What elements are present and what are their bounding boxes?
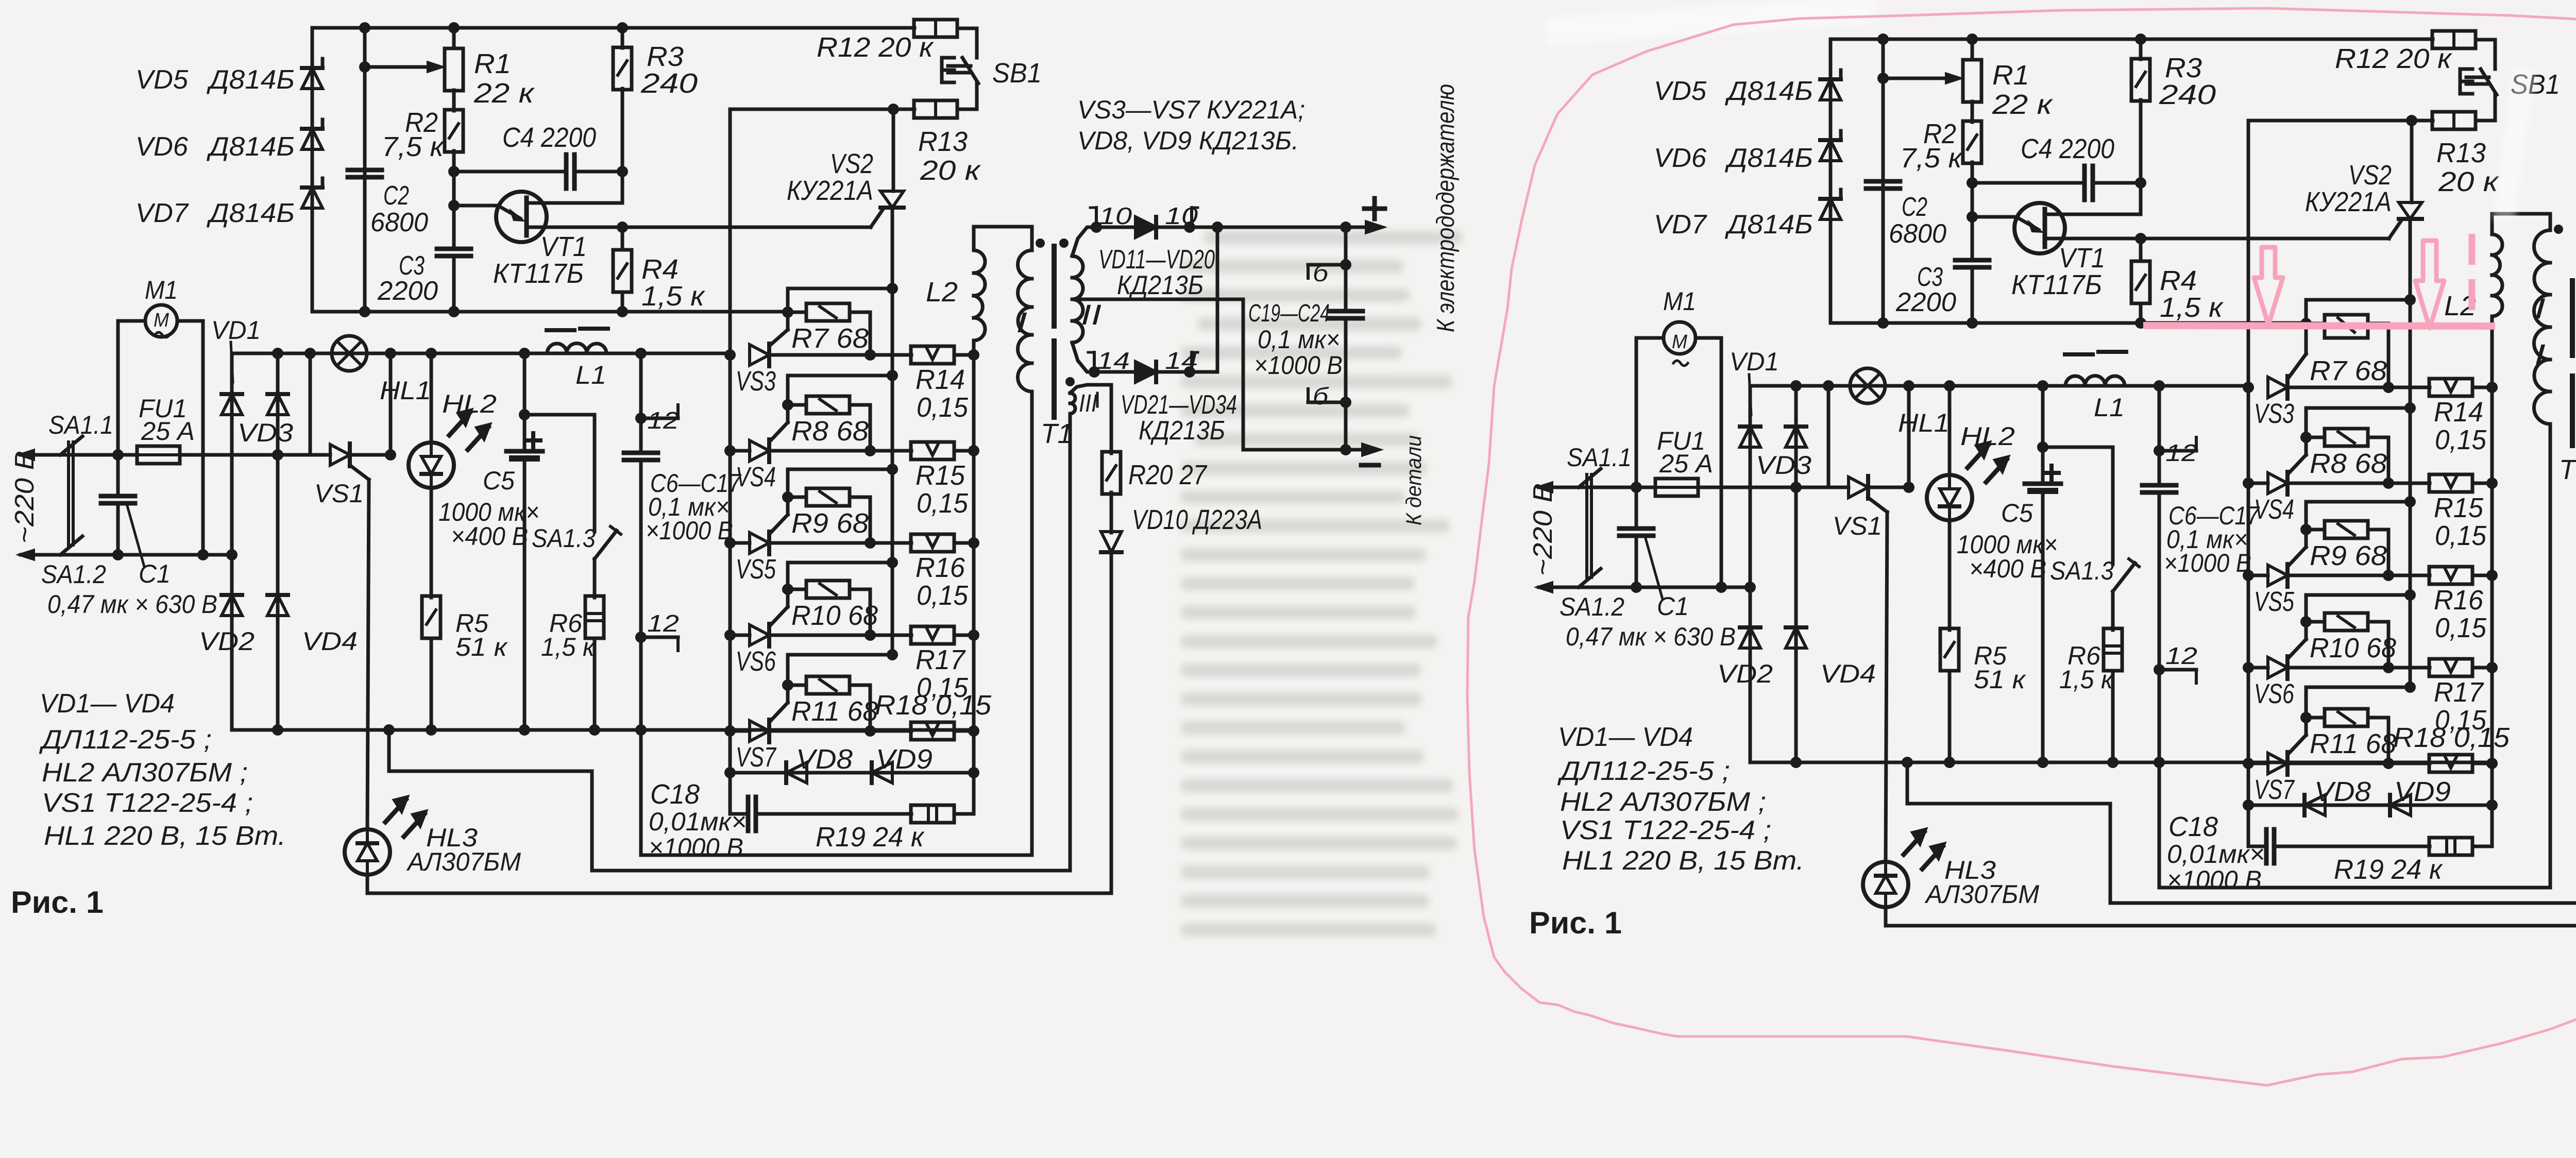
wire VD10 down to return [1110,552,1113,893]
resistor R12 [914,20,957,37]
junction VS3 anode rail (right copy) [2243,382,2254,393]
svg-text:VS7: VS7 [2254,774,2295,805]
junction R9 left lead (right copy) [2300,524,2312,535]
wire return line A (right copy) [2159,886,2550,890]
thyristor VS5 [750,533,769,553]
inductor L2 [972,227,976,250]
svg-text:2200: 2200 [1895,287,1956,317]
junction main bus VD3 [272,348,283,359]
wire VS1 gate (right copy) [1868,498,1887,512]
svg-text:0,15: 0,15 [2435,612,2487,643]
wire zener rail left side [311,28,314,312]
svg-text:R10 68: R10 68 [2310,633,2396,663]
wire VD2 to return bus [230,616,234,730]
wire VD4 to return bus [276,616,280,730]
svg-text:VS2: VS2 [2348,160,2392,191]
wire VS4 cathode (right copy) [2287,482,2430,485]
svg-text:0,01мк×: 0,01мк× [649,807,747,836]
junction VS6 gate-res branch (right copy) [2404,589,2416,601]
resistor R12 (right copy) [2432,31,2476,48]
wire SA1.3 to R6 (right copy) [2111,591,2115,630]
wire between R1 and R2 (right copy) [1971,101,1974,122]
wire C4 link [454,170,566,174]
svg-text:Рис. 1: Рис. 1 [1529,906,1622,940]
switch SA1.1 input arrow [21,453,60,457]
transformer core (right copy) [2570,281,2575,355]
thyristor VS4 (right copy) [2268,473,2287,493]
svg-text:10: 10 [1165,202,1198,229]
svg-text:SA1.1: SA1.1 [1567,443,1632,472]
junction VS3 gate-res branch (right copy) [2404,294,2416,305]
svg-text:VD7: VD7 [1654,210,1707,240]
junction R14 right [968,349,979,361]
junction R10 left lead (right copy) [2300,616,2312,627]
resistor R9 [806,488,850,506]
wire R9 right lead (right copy) [2368,528,2388,532]
junction R10 left lead [782,584,793,595]
LED HL2 (right copy) [1948,386,1952,475]
svg-text:0,01мк×: 0,01мк× [2167,840,2265,868]
wire return line C (right copy) [1886,924,2576,928]
junction R8 left lead (right copy) [2300,432,2312,443]
thyristor VS6 (right copy) [2268,657,2287,678]
junction C2 rail top (right copy) [1877,33,1889,45]
diode VD8 [786,762,807,783]
svg-text:SA1.3: SA1.3 [2050,556,2114,585]
junction emitter node (right copy) [1967,211,1978,223]
wire R5 to return bus [430,638,433,730]
wire VS2 gate diagonal (right copy) [2389,220,2401,239]
resistor R20 [1102,452,1121,494]
svg-text:C18: C18 [2168,811,2218,842]
wire R3 rail (right copy) [2139,39,2143,59]
svg-text:0,15: 0,15 [2435,424,2487,455]
svg-text:VS7: VS7 [736,742,776,773]
capacitor C6-C17 [624,451,658,455]
junction R8 to cathode (right copy) [2383,478,2394,489]
svg-text:R15: R15 [2434,492,2484,523]
capacitor C5 rail [523,353,527,451]
wire VS1 riser [309,353,312,455]
resistor R1 (potentiometer) [445,48,463,91]
wire R15 to L2 rail [954,449,974,453]
svg-text:М: М [154,310,169,331]
svg-text:240: 240 [640,68,698,99]
switch mechanical link [67,442,70,545]
junction bus C6 rail (right copy) [2154,380,2165,391]
wire SA1.2 lower bus (right copy) [1579,586,1750,589]
label VD1 leader [231,342,233,382]
junction VS7 gate-res branch (right copy) [2404,682,2416,693]
junction output plus node [1212,222,1223,233]
resistor R16 (right copy) [2429,567,2472,584]
lamp HL1 (right copy) [1850,368,1885,403]
wire C4 link (right copy) [1972,181,2084,185]
svg-text:VD6: VD6 [1654,143,1706,173]
resistor R17 (right copy) [2429,659,2472,676]
wire VS6 cathode [769,634,911,637]
wire bridge rail VD3 VD4 (right copy) [1794,386,1798,649]
switch SA1.1 blade [60,436,82,455]
capacitor C1 (right copy) [1635,487,1638,529]
faint printed text column (left page) [1181,231,1463,936]
resistor R3 (right copy) [2131,59,2150,101]
wire VS2 anode lead (right copy) [2410,121,2414,202]
svg-text:VS4: VS4 [736,462,776,492]
resistor R8 (right copy) [2325,429,2368,446]
wire R14 to L2 rail (right copy) [2472,386,2492,389]
capacitor C3 (right copy) [1955,258,1989,263]
junction VD8 row left [724,767,736,778]
svg-text:T1: T1 [1041,418,1073,449]
wire to SA1.3 (right copy) [2043,446,2113,449]
junction R9 to cathode (right copy) [2383,570,2394,581]
svg-text:×1000 В: ×1000 В [1254,351,1343,380]
svg-text:T1: T1 [2559,454,2576,485]
junction 10 left [1091,222,1102,233]
zener diode VD6 (right copy) [1820,140,1841,161]
svg-text:III: III [1079,390,1097,417]
svg-text:I: I [2534,292,2546,325]
svg-text:КТ117Б: КТ117Б [493,258,584,289]
diode VD21-VD34 [1136,362,1156,382]
switch SA1.3 (right copy) [2113,563,2135,591]
thyristor VS3 [750,345,769,365]
terminal b lower [1308,401,1346,404]
junction VD4 return [272,724,283,736]
wire gate loop R8 [788,374,892,378]
wire R6 to return bus [593,638,597,730]
polarity dot primary (right copy) [2554,225,2563,234]
svg-text:Рис. 1: Рис. 1 [11,885,104,919]
svg-text:7,5 к: 7,5 к [1900,143,1963,174]
motor M1 (right copy) [1664,322,1696,354]
inductor L1 [524,352,547,355]
svg-text:2200: 2200 [377,276,438,306]
diode VD3 (right copy) [1786,427,1806,447]
inductor L2 (right copy) [2490,214,2494,234]
switch SA1.2 blade (right copy) [1579,569,1601,587]
junction bottom C3 (right copy) [1967,317,1978,329]
junction M1 - SA1.2 bus (right copy) [1716,582,1727,593]
wire VS3 cathode [769,353,911,357]
wire M1 right lead [177,319,203,323]
svg-text:SA1.2: SA1.2 [41,560,106,589]
wire R7 right lead [850,311,870,314]
junction bus HL2 [426,348,437,359]
svg-text:HL1: HL1 [380,376,431,405]
wire R13 left to rail (right copy) [2248,119,2433,123]
diode VD9 [872,762,892,783]
resistor R19 [911,805,954,823]
svg-text:20 к: 20 к [920,155,981,186]
junction R18 right [968,725,979,737]
label C1 leader line (right copy) [1646,538,1663,599]
wire VS2 cathode rail [891,208,894,655]
capacitor C2 [348,168,382,173]
svg-text:SA1.3: SA1.3 [532,524,596,553]
wire gate loop R9 (right copy) [2306,500,2410,504]
thyristor VS7 [750,721,769,741]
wire R17 to L2 rail (right copy) [2472,666,2492,670]
svg-text:VD9: VD9 [2394,776,2451,807]
switch SA1.3 [595,531,617,559]
wire plus output [1217,226,1371,229]
junction VD9 right [968,767,979,778]
wire bridge rail VD1 VD2 [230,353,234,616]
wire R19 to rail [954,812,974,816]
wire main bus (right copy) [1750,384,2248,388]
diode VD4 [267,595,288,616]
wire R6 to return bus (right copy) [2111,671,2115,762]
junction bus C5 [519,348,530,359]
wire VS5 anode (right copy) [2248,574,2268,577]
junction bottom R4 (right copy) [2135,317,2146,329]
wire R18 to L2 rail (right copy) [2472,762,2492,765]
capacitor C2 (right copy) [1866,179,1900,184]
junction VD8 row left (right copy) [2243,799,2254,811]
svg-text:АЛ307БМ: АЛ307БМ [406,847,521,876]
zener diode VD7 (right copy) [1820,199,1841,219]
junction bottom R4 [617,306,628,317]
zener diode VD5 [302,68,323,89]
wire R8 right lead (right copy) [2368,436,2388,439]
inductor L1 core dashes [547,328,574,332]
wire R2 bottom to C3 [452,151,456,249]
svg-text:М1: М1 [1663,287,1696,316]
resistor R15 [911,442,954,459]
junction VS7 gate-res branch [887,649,898,660]
junction main bus VS1 riser (right copy) [1823,380,1834,391]
wire M1 left lead [118,319,145,323]
wire gate loop R11 [788,653,892,657]
terminal 12 lower (right copy) [2154,664,2165,675]
svg-text:VS1 Т122-25-4 ;: VS1 Т122-25-4 ; [1560,815,1771,845]
wire II bottom lead to tap 14 [1072,343,1094,372]
svg-text:VS5: VS5 [736,554,776,585]
wire 14-wire [1094,370,1134,374]
svg-text:R3: R3 [2165,53,2202,83]
svg-text:К детали: К детали [1401,435,1426,525]
wire C18 R19 row (right copy) [2247,805,2250,846]
junction bus C5 (right copy) [2037,380,2048,391]
diode VD4 (right copy) [1786,627,1806,648]
label C1 leader line [127,506,144,567]
label minus sign [1361,463,1379,468]
capacitor C4 [564,155,569,189]
wire 10-wire right [1156,226,1217,229]
svg-text:К электрододержателю: К электрододержателю [1432,84,1460,332]
junction C6 return bus (right copy) [2154,757,2165,768]
capacitor C5 rail (right copy) [2041,386,2045,484]
wire R1 wiper arrow (right copy) [1883,77,1954,80]
wire T1 primary bottom lead (right copy) [2549,424,2552,888]
svg-text:R8 68: R8 68 [791,416,869,447]
wire gate loop R11 (right copy) [2306,686,2410,689]
junction R9 left lead [782,491,793,503]
svg-text:R3: R3 [647,41,684,72]
capacitor C5 [506,449,543,454]
pink dashed line near L2 [2469,234,2476,315]
wire VD4 to return bus (right copy) [1794,649,1798,762]
junction R14 right (right copy) [2486,382,2498,393]
resistor R19 (right copy) [2429,838,2472,855]
junction bottom C2 (right copy) [1877,317,1889,329]
lamp HL1 [332,336,367,371]
svg-text:М: М [1672,331,1687,353]
wire R1 R2 rail (right copy) [1971,39,1974,60]
wire oscillator top bus [312,26,914,30]
polarity dot II [1059,239,1069,248]
wire gate loop R7 [788,287,892,291]
zener diode VD7 [302,188,323,208]
junction C6 return bus [635,724,647,736]
switch SA1.1 input arrow (right copy) [1539,486,1579,489]
thyristor VS2 [880,191,904,208]
switch SA1.2 input arrow (right copy) [1539,586,1579,589]
wire VT1 emitter [454,204,499,208]
junction R17 right [968,629,979,641]
junction VS4 gate-res branch (right copy) [2404,402,2416,414]
svg-text:VD8: VD8 [2314,776,2371,807]
wire oscillator bottom bus (right copy) [1831,321,2307,325]
wire R9 right lead [850,496,870,499]
wire T1 primary top link (right copy) [2492,212,2550,216]
switch SA1.1 blade (right copy) [1579,469,1601,487]
wire SB1 to R13 [975,82,979,109]
resistor R10 [806,581,850,598]
svg-text:SB1: SB1 [992,58,1042,89]
svg-text:L1: L1 [2094,393,2125,422]
junction VS1 cathode riser [385,449,396,461]
wire C18 R19 row [728,773,732,814]
wire anode rail (right copy) [2247,121,2250,805]
resistor R6 [585,596,604,638]
transformer T1 secondary II [1072,256,1083,278]
wire fuse bus (right copy) [1579,486,1655,489]
svg-text:C18: C18 [650,779,700,810]
wire L2 rail down [972,355,976,773]
svg-text:×400 В: ×400 В [451,522,528,551]
resistor R14 [911,346,954,364]
wire M1 right lead (right copy) [1696,336,1721,340]
junction fuse bus VD3 (right copy) [1790,482,1802,493]
thyristor VS7 (right copy) [2268,753,2287,774]
svg-text:R13: R13 [2436,138,2486,168]
wire R15 to L2 rail (right copy) [2472,482,2492,485]
wire gate loop R8 (right copy) [2306,406,2410,410]
resistor R3 [613,47,632,90]
wire VT1 base2 to R3 rail [527,201,622,205]
svg-text:51 к: 51 к [1974,665,2027,694]
wire bridge rail VD1 VD2 (right copy) [1749,386,1752,649]
inductor L1 core dashes (right copy) [2065,352,2093,356]
wire T1 primary top link [974,225,1032,229]
switch SA1.2 blade [60,536,82,555]
svg-text:25 А: 25 А [1659,449,1713,478]
svg-text:HL2 АЛ307БМ ;: HL2 АЛ307БМ ; [42,758,248,788]
wire R13 left to rail [730,108,914,111]
capacitor C18 (right copy) [2264,829,2269,863]
svg-text:20 к: 20 к [2438,166,2500,197]
svg-text:Д814Б: Д814Б [1725,143,1813,173]
wire R17 to L2 rail [954,634,974,637]
junction R13-VS2 [888,104,899,115]
wire M1 left lead (right copy) [1636,336,1664,340]
svg-text:R11 68: R11 68 [791,696,878,727]
label plus sign [1364,198,1385,219]
wire C3 to bottom [452,256,456,312]
wire VS2 cathode rail (right copy) [2409,219,2412,687]
svg-text:VS2: VS2 [830,148,873,179]
junction SA1.2 - bridge [226,549,238,560]
svg-text:I: I [1016,306,1027,338]
junction R16 right (right copy) [2486,570,2498,581]
switch SA1.2 input arrow [21,553,60,557]
svg-text:R13: R13 [918,126,968,157]
capacitor C6-C17 rail (right copy) [2158,386,2161,485]
thyristor VS4 [750,440,769,461]
svg-text:Д814Б: Д814Б [207,198,295,228]
wire bridge rail VD3 VD4 [276,353,280,616]
svg-text:б: б [1313,260,1329,286]
svg-text:VT1: VT1 [2059,243,2105,274]
terminal 12 upper (right copy) [2154,445,2165,456]
resistor R4 [613,250,632,292]
thyristor VS1 [330,445,350,465]
junction bottom C2 [359,306,370,317]
wire R5 to return bus (right copy) [1948,671,1952,762]
wire return line B [592,869,1070,873]
junction VS6 anode rail [724,629,736,641]
junction VS5 gate-res branch [887,464,898,475]
junction R10 to cathode [865,629,876,641]
svg-text:VD8, VD9 КД213Б.: VD8, VD9 КД213Б. [1077,126,1299,155]
junction R8 left lead [782,399,793,411]
svg-text:R14: R14 [916,364,965,395]
svg-text:VD2: VD2 [1717,659,1773,688]
junction R16 right [968,537,979,549]
svg-text:1,5 к: 1,5 к [641,281,706,312]
LED HL2 [430,353,433,442]
wire VS1 cathode riser [389,353,393,455]
junction VS4 anode rail (right copy) [2243,478,2254,489]
wire VD2 to return bus (right copy) [1749,649,1752,762]
resistor R13 [914,100,957,118]
wire return line C [367,892,1111,895]
svg-text:R14: R14 [2434,397,2483,428]
junction wiper on C2 rail [359,61,370,73]
terminal 12 upper [635,413,647,424]
wire oscillator top bus (right copy) [1831,38,2433,41]
wire C3 to bottom (right copy) [1971,267,1974,323]
junction R3-C4 node [617,166,628,177]
svg-text:R15: R15 [916,460,965,491]
diode VD9 (right copy) [2390,795,2411,815]
diode VD8 (right copy) [2304,795,2325,815]
wire return line A [641,854,1032,857]
junction bus HL1 right (right copy) [1903,380,1914,391]
wire II top lead to tap 10 [1072,227,1096,256]
svg-text:HL1 220 В, 15 Вт.: HL1 220 В, 15 Вт. [44,821,286,851]
junction R7 left lead (right copy) [2300,318,2312,329]
resistor R1 (potentiometer) (right copy) [1963,60,1981,102]
wire VS7 anode (right copy) [2248,762,2268,765]
junction main bus VD3 (right copy) [1790,380,1802,391]
junction 14 right [1184,366,1195,378]
svg-text:R20 27: R20 27 [1128,459,1208,490]
junction VS5 gate-res branch (right copy) [2404,496,2416,507]
